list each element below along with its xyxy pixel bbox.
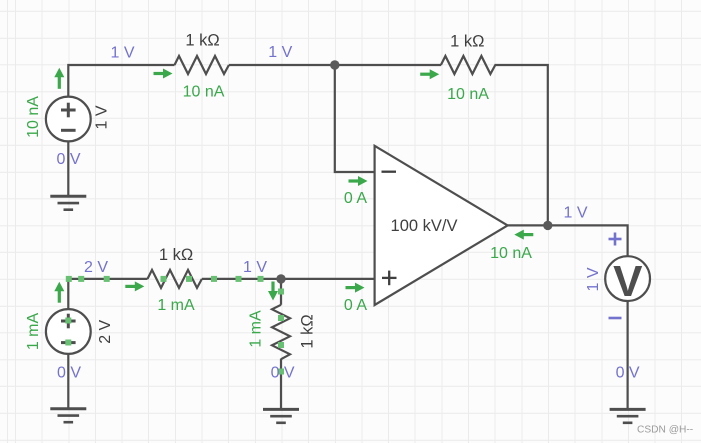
wire node C down to R4 top	[280, 279, 282, 305]
resistor R4 1k ohm vertical	[272, 305, 290, 359]
svg-text:10 nA: 10 nA	[183, 83, 225, 100]
svg-text:1 kΩ: 1 kΩ	[185, 31, 219, 49]
current arrow V2 current up	[54, 282, 64, 303]
svg-text:1 kΩ: 1 kΩ	[159, 246, 193, 264]
node B junction	[543, 221, 552, 230]
ground G4	[610, 409, 646, 422]
svg-text:CSDN @H--: CSDN @H--	[637, 425, 693, 436]
current arrow into R3	[125, 281, 144, 291]
resistor R2 1k ohm	[441, 56, 495, 74]
ground G2	[50, 409, 86, 422]
current arrow into op-amp output	[514, 230, 533, 240]
wire R2 right down to node B	[495, 65, 548, 225]
ground G1	[50, 196, 86, 209]
wire voltmeter minus to ground	[626, 300, 628, 409]
wire source V2 top to R3 left	[68, 279, 147, 310]
svg-text:0 A: 0 A	[344, 297, 367, 314]
svg-text:10 nA: 10 nA	[25, 96, 42, 138]
voltage source V2 2V	[46, 309, 91, 354]
voltmeter minus terminal mark	[609, 317, 622, 320]
svg-text:0 V: 0 V	[616, 364, 640, 381]
svg-text:1 mA: 1 mA	[157, 297, 195, 314]
wire source V2 bottom to ground	[67, 354, 69, 409]
op-amp U1	[375, 146, 508, 305]
resistor R3 1k ohm	[148, 270, 202, 288]
svg-text:100 kV/V: 100 kV/V	[391, 217, 458, 235]
voltmeter plus terminal mark	[609, 233, 622, 246]
current flow dots (1 mA loop)	[65, 276, 284, 375]
current arrow into inverting input	[349, 176, 368, 186]
svg-text:1 mA: 1 mA	[25, 313, 42, 351]
wire op-amp output to node B	[508, 224, 548, 226]
svg-text:1 kΩ: 1 kΩ	[450, 32, 484, 50]
wire R3 right to node C	[202, 278, 281, 280]
svg-text:0 V: 0 V	[56, 151, 80, 168]
svg-text:10 nA: 10 nA	[490, 245, 532, 262]
svg-text:2 V: 2 V	[84, 259, 108, 276]
wire node A to R2 left	[335, 64, 441, 66]
svg-text:0 V: 0 V	[57, 364, 81, 381]
wire source V1 bottom to ground	[67, 141, 69, 196]
wire R1 right to node A	[229, 64, 335, 66]
svg-text:1 V: 1 V	[268, 44, 292, 61]
current arrow V1 current up	[54, 68, 64, 89]
svg-text:10 nA: 10 nA	[447, 86, 489, 103]
svg-text:1 V: 1 V	[110, 45, 134, 62]
wire R4 bottom to ground	[280, 359, 282, 409]
voltmeter VM1	[605, 256, 650, 306]
ground G3	[263, 409, 299, 422]
node A junction	[330, 60, 339, 69]
wire node C to op-amp non-inverting input	[281, 278, 375, 280]
current arrow into R4	[268, 282, 278, 301]
svg-text:1 V: 1 V	[563, 204, 587, 221]
current arrow into R2	[420, 69, 439, 79]
node C junction	[276, 274, 285, 283]
wire node B to voltmeter plus	[548, 225, 628, 257]
current arrow into non-inverting input	[346, 283, 365, 293]
svg-text:0 A: 0 A	[344, 190, 367, 207]
resistor R1 1k ohm	[175, 56, 229, 74]
voltage source V1 1V	[46, 97, 91, 142]
svg-text:1 V: 1 V	[243, 259, 267, 276]
svg-text:2 V: 2 V	[97, 319, 114, 343]
svg-text:0 V: 0 V	[271, 364, 295, 381]
svg-text:1 mA: 1 mA	[248, 310, 265, 348]
wire node A to op-amp inverting input	[335, 65, 375, 172]
current arrow into R1	[154, 69, 173, 79]
svg-text:1 kΩ: 1 kΩ	[299, 314, 317, 348]
svg-text:V: V	[613, 257, 643, 306]
svg-text:1 V: 1 V	[585, 267, 602, 291]
svg-text:1 V: 1 V	[94, 105, 111, 129]
wire source V1 top to R1 left	[68, 65, 174, 97]
